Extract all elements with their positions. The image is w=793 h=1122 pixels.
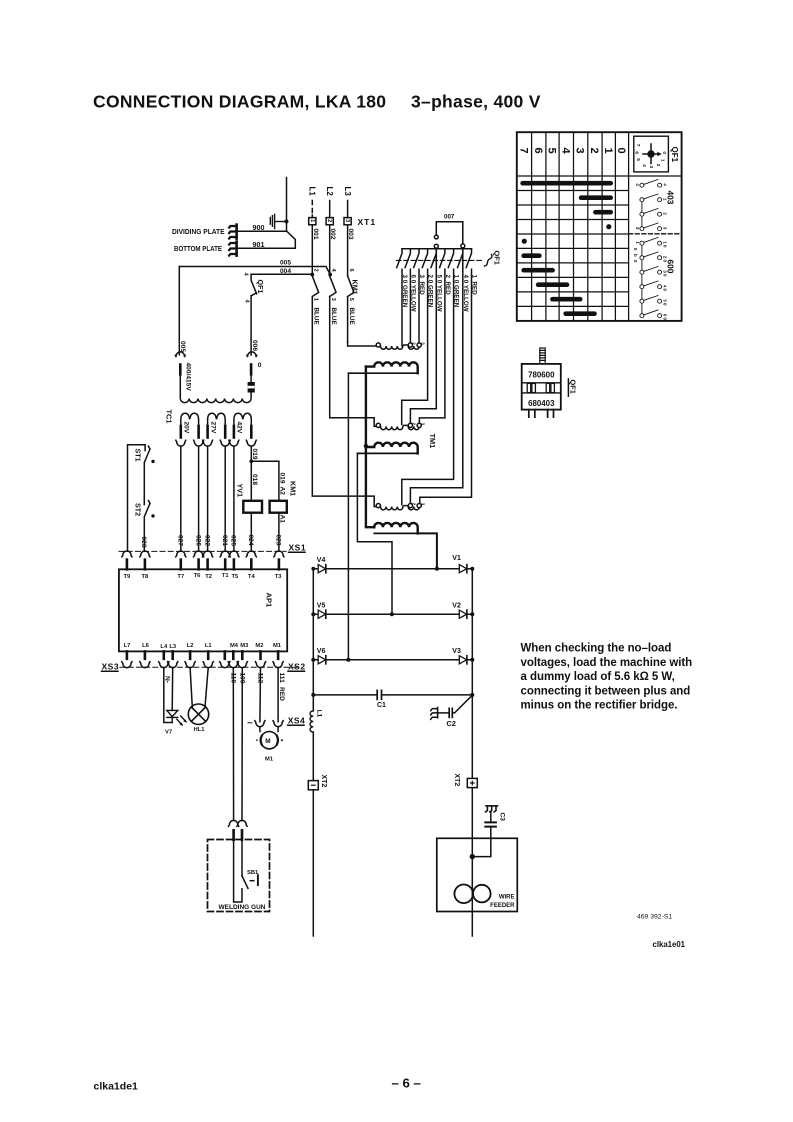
- note text: [521, 643, 693, 712]
- svg-text:ST1: ST1: [133, 449, 142, 462]
- diode V6: [318, 656, 325, 664]
- wire 4 0 YELLOW: [410, 249, 462, 505]
- svg-text:5 0 YELLOW: 5 0 YELLOW: [435, 275, 442, 312]
- motor M1: [260, 727, 278, 732]
- terminal XT1-1: [309, 218, 316, 225]
- svg-text:002: 002: [329, 229, 336, 240]
- transformer TM1 secondary 1: [366, 362, 418, 373]
- wire QF1 top bus: [402, 248, 472, 250]
- node row1 junctions: [435, 567, 439, 571]
- trigger switch SB1: [242, 876, 248, 888]
- svg-text:5: 5: [348, 298, 354, 301]
- svg-text:A2: A2: [279, 487, 286, 496]
- svg-text:V2: V2: [452, 602, 461, 609]
- svg-text:T6: T6: [194, 573, 202, 579]
- svg-text:001: 001: [312, 229, 319, 240]
- connector XS1 cups: [122, 551, 284, 557]
- wire N-: [164, 668, 172, 723]
- chassis gnd C3: [486, 806, 498, 812]
- gun internal wires: [234, 840, 242, 902]
- svg-text:XS3: XS3: [102, 662, 120, 672]
- svg-text:YV1: YV1: [235, 484, 244, 498]
- svg-text:connecting it between plus and: connecting it between plus and: [521, 685, 691, 697]
- diode V5: [318, 610, 325, 618]
- welding gun enclosure (dashed): [208, 840, 270, 912]
- wire to bottom plate: [287, 231, 296, 248]
- label QF1 (block): [567, 379, 569, 396]
- wire 1 RED: [420, 269, 472, 504]
- svg-text:M3: M3: [240, 643, 249, 649]
- svg-text:C1: C1: [377, 702, 386, 709]
- wire 023: [278, 513, 280, 552]
- connector XS4: [248, 722, 252, 724]
- svg-text:T7: T7: [177, 574, 184, 580]
- table contact symbols: [640, 180, 662, 318]
- wire 901: [237, 247, 296, 249]
- svg-text:0: 0: [661, 151, 667, 154]
- svg-text:When checking the no–load: When checking the no–load: [521, 643, 672, 655]
- svg-text:2: 2: [326, 219, 332, 222]
- chassis gnd C2: [431, 707, 438, 719]
- svg-text:4 0 YELLOW: 4 0 YELLOW: [462, 275, 469, 312]
- svg-text:4: 4: [559, 148, 571, 155]
- svg-text:C2: C2: [446, 719, 456, 728]
- diode V3: [459, 656, 466, 664]
- connector hooks to welding gun: [229, 820, 248, 826]
- svg-text:XS1: XS1: [289, 543, 307, 553]
- node 019 junction: [249, 459, 253, 463]
- connector XS3/XS2 cups: [122, 662, 283, 668]
- table header digits: [517, 148, 627, 155]
- terminal XT1-2: [326, 218, 333, 225]
- svg-text:L3: L3: [169, 644, 177, 650]
- lamp HL1: [190, 668, 208, 707]
- svg-text:025: 025: [230, 535, 237, 546]
- wire 019 drop: [250, 446, 252, 461]
- svg-text:M1: M1: [273, 643, 282, 649]
- contact KM1 3-4: [328, 273, 332, 277]
- svg-text:KM1: KM1: [351, 280, 360, 295]
- svg-text:680403: 680403: [528, 399, 555, 408]
- pin stub 005: [179, 365, 182, 375]
- wire L1 lead: [311, 201, 313, 218]
- svg-text:XT2: XT2: [320, 775, 327, 788]
- svg-text:HL1: HL1: [194, 727, 206, 733]
- svg-text:C3: C3: [498, 813, 505, 822]
- svg-text:469 392-S1: 469 392-S1: [637, 914, 672, 921]
- svg-text:780600: 780600: [528, 371, 555, 380]
- svg-text:N-: N-: [164, 676, 171, 683]
- connector hook 005: [175, 352, 185, 357]
- svg-text:6: 6: [532, 148, 544, 154]
- connector XS1 dashed line: [119, 550, 286, 552]
- wire 110: [232, 668, 234, 821]
- fuse/limiter on 006: [248, 382, 255, 393]
- svg-text:6 0: 6 0: [662, 314, 667, 321]
- svg-text:900: 900: [253, 223, 265, 232]
- svg-text:BLUE: BLUE: [348, 308, 355, 325]
- svg-text:2: 2: [588, 148, 600, 154]
- wire to V7: [171, 668, 174, 711]
- svg-text:V4: V4: [317, 557, 326, 564]
- capacitor C1: [313, 694, 472, 696]
- svg-text:2 0 GREEN: 2 0 GREEN: [427, 275, 434, 308]
- svg-text:L7: L7: [124, 643, 131, 649]
- svg-text:403: 403: [665, 191, 675, 205]
- svg-text:003: 003: [347, 229, 354, 240]
- svg-text:ST2: ST2: [133, 503, 142, 516]
- svg-text:clka1de1: clka1de1: [94, 1080, 139, 1092]
- diode V1: [459, 565, 466, 573]
- diode V2: [459, 610, 466, 618]
- solenoid valve YV1: [243, 501, 262, 513]
- node row2 junctions: [311, 612, 315, 616]
- svg-text:TC1: TC1: [165, 410, 174, 424]
- wire unit2 secondary out to V5 row: [357, 453, 392, 614]
- svg-text:L1: L1: [315, 710, 322, 718]
- svg-text:6: 6: [634, 151, 640, 154]
- svg-text:L1: L1: [308, 187, 317, 197]
- svg-text:BOTTOM PLATE: BOTTOM PLATE: [174, 244, 222, 253]
- svg-text:20V: 20V: [183, 422, 190, 434]
- transformer TM1 primary 1: [376, 343, 380, 347]
- svg-text:T4: T4: [248, 574, 256, 580]
- LED V7: [167, 710, 178, 722]
- feed rollers: [454, 885, 473, 904]
- contact KM1 1-2: [310, 273, 314, 277]
- chassis earth symbol: [270, 214, 286, 228]
- svg-text:QF1: QF1: [256, 280, 265, 294]
- wire TM1 sec bus (thick): [366, 367, 374, 528]
- svg-text:006: 006: [251, 340, 258, 351]
- svg-text:005: 005: [179, 341, 186, 352]
- svg-text:voltages, load the machine wit: voltages, load the machine with: [521, 657, 693, 669]
- wire feed 002 to TM1 unit2: [330, 342, 377, 426]
- svg-text:005: 005: [280, 260, 291, 267]
- svg-text:024: 024: [247, 535, 254, 546]
- svg-text:6: 6: [348, 269, 354, 272]
- svg-text:T3: T3: [275, 574, 283, 580]
- svg-text:5: 5: [546, 148, 558, 154]
- svg-text:V7: V7: [165, 730, 172, 736]
- wire 002: [329, 225, 331, 275]
- secondary pin stubs: [181, 426, 252, 438]
- svg-text:TM1: TM1: [428, 434, 437, 449]
- svg-text:V1: V1: [452, 555, 461, 562]
- svg-text:T8: T8: [142, 574, 150, 580]
- wire AC row 2: [313, 613, 472, 615]
- svg-text:3 0 GREEN: 3 0 GREEN: [401, 275, 408, 308]
- diode V4: [318, 565, 325, 573]
- svg-text:AP1: AP1: [265, 593, 274, 609]
- capacitor C2: [453, 695, 473, 713]
- svg-text:3: 3: [330, 298, 336, 301]
- svg-text:minus on the rectifier bridge.: minus on the rectifier bridge.: [521, 700, 678, 712]
- svg-text:L4: L4: [160, 644, 168, 650]
- svg-text:BLUE: BLUE: [313, 308, 320, 325]
- wire plus bus: [471, 569, 473, 695]
- svg-text:7: 7: [635, 144, 641, 147]
- wire 112: [259, 668, 262, 722]
- pcb AP1: [119, 569, 287, 651]
- svg-text:3: 3: [344, 219, 350, 222]
- svg-text:V5: V5: [317, 602, 326, 609]
- svg-text:T5: T5: [232, 574, 240, 580]
- svg-text:026: 026: [194, 535, 201, 546]
- wire L2 lead: [329, 201, 331, 218]
- wire feed 003 to TM1 unit1: [348, 342, 377, 346]
- svg-text:BLUE: BLUE: [330, 308, 337, 325]
- wire 1 0 GREEN: [402, 269, 454, 504]
- wire 5 0 YELLOW: [410, 249, 436, 425]
- svg-text:3 RED: 3 RED: [418, 275, 425, 296]
- switch QF1 main contacts (9): [397, 249, 472, 268]
- svg-text:QF1: QF1: [569, 380, 578, 394]
- switch QF1 aux contact: [251, 274, 257, 355]
- inductor L1: [312, 695, 314, 711]
- wire 900: [237, 230, 287, 232]
- terminal XT1-3: [344, 218, 351, 225]
- svg-text:CONNECTION DIAGRAM, LKA 180: CONNECTION DIAGRAM, LKA 180: [93, 92, 386, 112]
- contact KM1 5-6: [348, 276, 354, 342]
- svg-text:3–phase, 400 V: 3–phase, 400 V: [411, 92, 541, 112]
- wire 021: [224, 446, 226, 551]
- wire 024: [250, 513, 252, 552]
- svg-text:901: 901: [253, 240, 265, 249]
- wire plus to XT2: [471, 695, 473, 779]
- svg-text:5 0: 5 0: [662, 299, 667, 306]
- AP1 bottom pin stubs: [127, 651, 278, 658]
- svg-text:XT2: XT2: [453, 774, 460, 787]
- svg-text:0: 0: [615, 148, 627, 154]
- transformer TM1 primary 2: [376, 423, 380, 427]
- thermal switch ST2: [144, 501, 150, 552]
- wire minus output: [312, 790, 314, 936]
- svg-text:007: 007: [444, 214, 455, 221]
- svg-text:M: M: [265, 738, 270, 745]
- svg-text:27V: 27V: [209, 422, 216, 434]
- wire minus bus: [312, 569, 314, 695]
- svg-text:SB1: SB1: [247, 870, 259, 876]
- svg-text:018: 018: [251, 474, 258, 485]
- svg-text:4 0: 4 0: [662, 285, 667, 292]
- svg-text:L2: L2: [325, 187, 334, 197]
- AP1 top pin stubs: [127, 560, 279, 570]
- svg-text:023: 023: [275, 535, 282, 546]
- wire unit1 secondary out to V6 row: [347, 373, 349, 660]
- svg-text:T2: T2: [205, 574, 212, 580]
- wire 006 vertical + hook: [247, 352, 257, 357]
- svg-text:XS4: XS4: [288, 716, 306, 726]
- svg-text:2: 2: [313, 269, 319, 272]
- svg-text:WIRE: WIRE: [499, 895, 515, 901]
- wire AC row 1: [313, 568, 472, 570]
- wire feed 001 to TM1 unit3: [312, 342, 376, 507]
- svg-text:1 0 GREEN: 1 0 GREEN: [453, 275, 460, 308]
- wire PE vertical: [286, 178, 288, 232]
- connector plug (dividing plate): [229, 225, 237, 239]
- wire unit3 secondary out to V4 row: [418, 533, 437, 568]
- svg-text:T9: T9: [124, 574, 132, 580]
- wire 027: [180, 446, 182, 551]
- wire 022: [207, 446, 209, 551]
- table grid verticals: [532, 132, 629, 321]
- transformer TM1 primary 3: [376, 504, 380, 508]
- wire 3 0 GREEN: [401, 269, 403, 346]
- table contact terminal numbers: [633, 183, 667, 320]
- wire feeder enclosure: [437, 838, 518, 911]
- wire 025: [233, 446, 235, 551]
- wire minus to XT2: [312, 732, 314, 781]
- terminal XT2 plus: [467, 778, 477, 787]
- svg-text:1: 1: [602, 148, 614, 154]
- switch QF1 ordering block: [540, 348, 545, 364]
- 403/600 dashed divider: [629, 233, 682, 235]
- transformer TM1 secondary 3: [374, 523, 418, 534]
- svg-text:XT1: XT1: [358, 217, 377, 227]
- svg-text:1: 1: [660, 159, 666, 162]
- svg-text:V3: V3: [452, 648, 461, 655]
- svg-text:112: 112: [257, 673, 264, 684]
- svg-text:clka1e01: clka1e01: [653, 940, 686, 949]
- TC1 secondary 27V: [208, 413, 226, 426]
- svg-text:2: 2: [655, 164, 661, 167]
- svg-text:019: 019: [279, 473, 286, 484]
- transformer TC1 primary: [180, 374, 251, 402]
- wire 2 RED: [419, 269, 445, 424]
- svg-text:2 RED: 2 RED: [444, 275, 451, 296]
- connector XS3/XS2 dashed line: [120, 666, 298, 668]
- svg-text:XS2: XS2: [288, 662, 306, 672]
- wire 001: [311, 225, 313, 274]
- wire 005: [179, 267, 330, 275]
- secondary connector cups: [176, 440, 256, 446]
- program bars: [523, 183, 611, 314]
- svg-text:021: 021: [221, 535, 228, 546]
- capacitor C3: [485, 822, 496, 826]
- svg-text:DIVIDING PLATE: DIVIDING PLATE: [172, 227, 225, 236]
- terminal XT2 minus: [308, 781, 318, 790]
- svg-text:WELDING GUN: WELDING GUN: [219, 904, 266, 911]
- rotary switch icon: [634, 136, 669, 172]
- wire 019 branch: [251, 461, 279, 501]
- pin labels AP1 bottom: [124, 643, 282, 650]
- wire 109: [241, 668, 243, 821]
- TC1 secondary 42V: [234, 413, 251, 426]
- svg-text:5: 5: [635, 158, 641, 161]
- svg-text:109: 109: [238, 673, 245, 684]
- svg-text:600: 600: [665, 260, 675, 274]
- wire 005 vertical: [178, 267, 180, 355]
- svg-text:b: b: [633, 254, 638, 257]
- svg-text:028: 028: [140, 537, 147, 548]
- svg-text:4: 4: [641, 164, 647, 167]
- connector plug (bottom plate): [229, 242, 237, 256]
- wire plus output: [471, 788, 473, 936]
- jumper 007: [436, 222, 463, 244]
- svg-text:42V: 42V: [236, 422, 243, 434]
- wire 2 0 GREEN: [402, 269, 428, 424]
- thermal switch ST1: [144, 445, 150, 504]
- pin labels AP1 top: [124, 573, 283, 580]
- node earth junction: [285, 220, 289, 224]
- transformer TM1 secondary 2: [366, 443, 418, 454]
- table grid horizontals: [517, 175, 682, 177]
- svg-text:– 6 –: – 6 –: [392, 1075, 421, 1090]
- svg-text:110: 110: [230, 673, 237, 684]
- svg-text:111: 111: [278, 673, 285, 684]
- svg-text:RED: RED: [278, 687, 285, 701]
- wire 6 0 YELLOW: [409, 269, 411, 344]
- wire ST left rail: [128, 445, 146, 552]
- contactor coil KM1: [270, 501, 287, 513]
- svg-text:019: 019: [251, 449, 258, 460]
- svg-text:6 0 YELLOW: 6 0 YELLOW: [409, 275, 416, 312]
- QF1 dashed actuator line: [397, 259, 485, 261]
- svg-text:V6: V6: [317, 648, 326, 655]
- node row3 junctions: [311, 658, 315, 662]
- svg-text:7: 7: [517, 148, 529, 154]
- svg-text:1 RED: 1 RED: [471, 275, 478, 296]
- wire 004: [251, 273, 312, 275]
- svg-text:FEEDER: FEEDER: [490, 903, 515, 909]
- svg-text:022: 022: [203, 535, 210, 546]
- wire 026: [198, 446, 200, 551]
- switch program table QF1: [517, 132, 682, 321]
- svg-text:3: 3: [648, 166, 654, 169]
- wire 003: [347, 225, 349, 276]
- svg-text:QF1: QF1: [493, 251, 502, 265]
- svg-text:M4: M4: [230, 643, 239, 649]
- svg-text:L2: L2: [187, 643, 194, 649]
- svg-text:a dummy load of 5.6 kΩ 5 W,: a dummy load of 5.6 kΩ 5 W,: [521, 671, 675, 683]
- svg-text:T1: T1: [222, 573, 230, 579]
- svg-text:KM1: KM1: [289, 481, 298, 496]
- svg-text:M1: M1: [265, 757, 274, 763]
- svg-text:027: 027: [177, 535, 184, 546]
- TC1 secondary 20V: [181, 413, 199, 426]
- svg-text:004: 004: [280, 268, 291, 275]
- svg-text:L6: L6: [142, 643, 150, 649]
- wire 018: [250, 461, 252, 501]
- svg-text:0: 0: [258, 362, 262, 369]
- svg-text:L1: L1: [205, 643, 213, 649]
- svg-text:M2: M2: [255, 643, 263, 649]
- svg-text:1: 1: [313, 298, 319, 301]
- svg-text:L3: L3: [343, 187, 352, 197]
- svg-text:1: 1: [309, 219, 315, 222]
- svg-text:QF1: QF1: [670, 147, 679, 163]
- wire 3 RED: [418, 269, 420, 344]
- wire L3 lead: [347, 201, 349, 218]
- svg-text:400/415V: 400/415V: [185, 363, 192, 392]
- wire AC row 3: [313, 659, 472, 661]
- gun pin stubs: [234, 830, 242, 840]
- wire 111: [277, 668, 279, 722]
- svg-text:1 0: 1 0: [662, 241, 667, 248]
- svg-text:3: 3: [574, 148, 586, 154]
